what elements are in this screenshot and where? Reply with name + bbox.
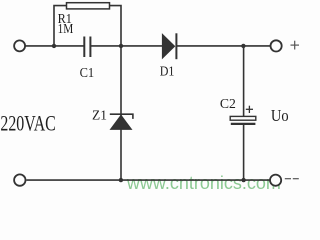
terminal output plus — [271, 40, 282, 51]
terminal output minus — [270, 175, 281, 186]
wire: C2 bottom plate down to bottom rail — [243, 124, 245, 180]
output plus sign — [291, 41, 300, 50]
junction node at R1/C1 left — [52, 44, 56, 48]
wire: bottom rail — [26, 179, 269, 181]
terminal input bottom — [14, 174, 25, 185]
wire: R1 branch left riser — [54, 6, 67, 46]
svg-text:1M: 1M — [58, 22, 74, 37]
svg-text:Uo: Uo — [271, 106, 289, 125]
capacitor C1 — [84, 37, 90, 58]
terminal input top — [14, 40, 25, 51]
junction node at Z1 bottom rail — [119, 178, 123, 182]
capacitor C2 (electrolytic) — [230, 116, 256, 124]
wire: right vertical to C2 top plate — [243, 46, 245, 117]
wire: R1 branch right riser — [109, 6, 121, 46]
zener Z1 — [110, 114, 133, 129]
wire: middle vertical through Z1 — [120, 46, 122, 180]
C2 plus sign — [246, 106, 253, 113]
svg-text:220VAC: 220VAC — [0, 111, 55, 136]
diode D1 — [162, 33, 176, 59]
junction node at C1 right / Z1 top — [119, 44, 123, 48]
svg-text:C1: C1 — [80, 66, 95, 81]
wire top: C1 right plate to D1 anode — [91, 45, 162, 47]
output minus sign — [285, 178, 299, 180]
svg-text:Z1: Z1 — [92, 109, 107, 124]
svg-text:C2: C2 — [220, 97, 236, 112]
svg-text:D1: D1 — [160, 65, 175, 80]
wire top: D1 cathode to output terminal — [177, 45, 271, 47]
resistor R1 — [67, 3, 110, 9]
svg-text:www.cntronics.com: www.cntronics.com — [126, 173, 281, 193]
wire top: input terminal to C1 left plate — [25, 45, 84, 47]
junction node at D1 cathode / C2 top — [241, 44, 245, 48]
junction node at C2 bottom rail — [241, 178, 245, 182]
